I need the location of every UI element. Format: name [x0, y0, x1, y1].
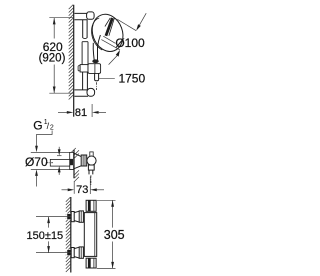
svg-text:81: 81: [75, 107, 87, 119]
svg-text:2: 2: [50, 125, 54, 132]
svg-text:73: 73: [76, 184, 88, 196]
svg-text:G: G: [33, 119, 42, 133]
svg-text:Ø70: Ø70: [25, 155, 48, 169]
svg-text:(920): (920): [39, 53, 66, 65]
svg-text:1750: 1750: [118, 72, 145, 86]
svg-text:305: 305: [104, 228, 125, 242]
svg-text:150±15: 150±15: [26, 230, 63, 242]
svg-text:Ø100: Ø100: [115, 36, 145, 50]
